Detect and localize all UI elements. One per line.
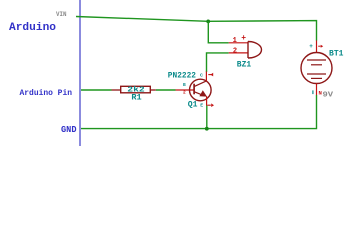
transistor Q1 base pin xyxy=(176,89,195,91)
battery bottom pin name - (teal) xyxy=(312,90,314,94)
svg-text:VIN: VIN xyxy=(56,11,67,18)
svg-text:GND: GND xyxy=(61,125,77,135)
emitter pin number 3 xyxy=(207,103,214,107)
svg-text:Q1: Q1 xyxy=(188,101,198,110)
svg-text:Arduino: Arduino xyxy=(9,22,56,34)
battery BT1 top pin xyxy=(316,41,318,53)
battery top pin number mark xyxy=(318,45,323,48)
svg-text:BT1: BT1 xyxy=(329,49,344,58)
svg-text:2: 2 xyxy=(183,90,186,96)
transistor emitter arrowhead xyxy=(199,90,207,96)
svg-text:E: E xyxy=(200,102,203,108)
buzzer BZ1 pin 1 stub xyxy=(229,42,248,44)
battery plate long top xyxy=(307,59,326,61)
junction dot at emitter/GND xyxy=(205,127,209,131)
buzzer BZ1 pin 2 stub xyxy=(229,52,248,54)
resistor R1 body xyxy=(121,86,151,93)
Arduino part edge (blue body line) xyxy=(79,0,81,146)
battery plate long lower xyxy=(307,73,326,75)
svg-text:R1: R1 xyxy=(131,94,142,103)
wire resistor to base xyxy=(156,89,176,91)
svg-text:9V: 9V xyxy=(323,92,334,100)
transistor collector pin xyxy=(205,72,207,82)
wire buzzer pin2 to collector xyxy=(207,53,229,72)
battery plate short bottom xyxy=(311,77,322,79)
wire emitter to GND xyxy=(206,106,208,129)
wire VIN to battery top (net) xyxy=(76,17,317,41)
wire GND net xyxy=(81,95,317,129)
battery plate short upper xyxy=(311,64,322,66)
junction dot at VIN/buzzer branch xyxy=(206,20,210,24)
transistor collector line xyxy=(194,81,206,87)
transistor Q1 circle xyxy=(190,79,212,101)
svg-text:Arduino Pin: Arduino Pin xyxy=(20,89,73,98)
wire Arduino Pin to resistor xyxy=(81,89,112,91)
svg-text:N: N xyxy=(319,90,322,97)
svg-text:C: C xyxy=(200,72,203,78)
transistor base bar xyxy=(193,84,195,95)
wire buzzer pin1 branch xyxy=(208,21,228,43)
resistor R1 left pin stub xyxy=(112,89,121,91)
svg-text:+: + xyxy=(241,34,246,43)
svg-text:+: + xyxy=(309,43,313,50)
resistor R1 right pin stub xyxy=(150,89,156,91)
battery BT1 circle xyxy=(301,53,332,84)
battery BT1 bottom pin xyxy=(316,84,318,96)
svg-text:2: 2 xyxy=(233,47,237,55)
transistor emitter pin xyxy=(206,96,208,105)
svg-text:1: 1 xyxy=(233,37,237,45)
collector pin number 1 xyxy=(208,73,213,77)
svg-text:B: B xyxy=(183,82,186,88)
svg-text:PN2222: PN2222 xyxy=(168,71,196,80)
transistor emitter line xyxy=(194,92,204,96)
buzzer BZ1 body (speaker D shape) xyxy=(248,42,262,59)
svg-text:BZ1: BZ1 xyxy=(237,61,252,70)
